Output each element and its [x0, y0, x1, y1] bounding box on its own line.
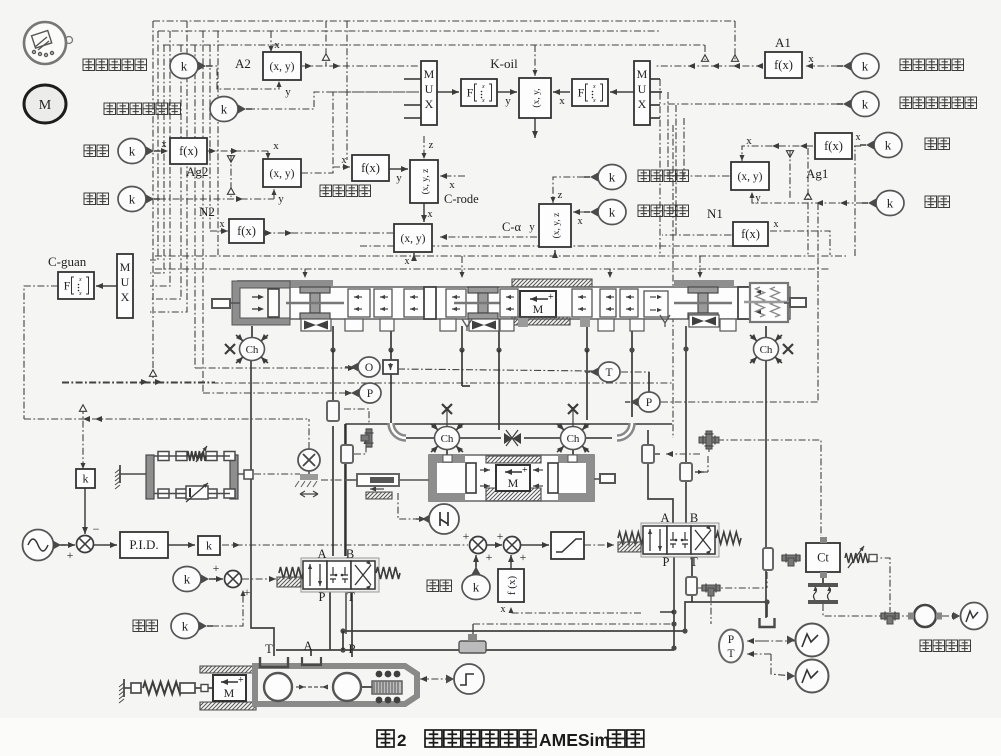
svg-text:k: k	[182, 619, 189, 634]
svg-text:B: B	[346, 547, 354, 561]
wire step to pump	[416, 678, 452, 680]
svg-text:+: +	[522, 465, 528, 476]
wire bundle x164	[150, 45, 164, 273]
wire accu dash	[473, 623, 674, 625]
wire x83 to kbox	[82, 407, 84, 469]
constant k bias1	[173, 567, 201, 592]
label pipe-len-r	[925, 196, 937, 208]
sensor P right	[638, 392, 660, 412]
wire valve2 T down	[691, 556, 693, 577]
thermal resistor	[845, 553, 869, 563]
wire rect mid2 stub	[354, 438, 366, 454]
wire xy3 out down	[413, 253, 415, 256]
wire kzero2 up	[475, 555, 477, 572]
wire k bend-count to C-alpha	[573, 211, 584, 213]
svg-text:M: M	[508, 476, 519, 490]
svg-text:T: T	[605, 367, 612, 379]
svg-text:F: F	[578, 86, 585, 100]
chamber rect b	[341, 445, 353, 463]
thermal capacitor	[808, 583, 838, 587]
wire k piston-dia to A2 y-in	[206, 66, 279, 89]
tee fitting b	[782, 554, 800, 567]
wire A2 branch up x326	[325, 21, 327, 66]
elbow right	[617, 423, 632, 438]
svg-text:Ch: Ch	[441, 433, 454, 445]
wire ch3 to cyl2	[446, 450, 448, 457]
wire pump P line	[276, 649, 674, 651]
svg-text:(x, y): (x, y)	[401, 233, 426, 245]
wire sum3 chain	[487, 544, 502, 546]
label piston-rod-dia	[83, 59, 95, 71]
fx block N2	[229, 219, 264, 243]
xy block center	[394, 224, 432, 252]
svg-text:(x, y, z: (x, y, z	[420, 169, 431, 195]
constant k pipe-len	[118, 187, 146, 212]
wire mux2 bundle x668	[667, 92, 669, 177]
svg-text:M: M	[224, 686, 235, 700]
label oil-density	[638, 170, 650, 182]
svg-text:O: O	[365, 362, 373, 374]
svg-text:z: z	[558, 189, 563, 201]
svg-text:f (x): f (x)	[506, 576, 518, 596]
svg-text:f(x): f(x)	[361, 161, 380, 175]
wire valve2 P down	[673, 556, 675, 648]
svg-text:A: A	[303, 639, 312, 653]
svg-text:(x, y): (x, y)	[270, 61, 295, 73]
wire drop x499	[498, 326, 500, 350]
svg-text:k: k	[609, 205, 616, 220]
svg-text:(x, y): (x, y)	[270, 168, 295, 180]
svg-text:T: T	[347, 590, 355, 604]
svg-text:f(x): f(x)	[774, 58, 793, 72]
svg-text:C-α: C-α	[502, 220, 522, 234]
svg-text:P: P	[646, 397, 652, 409]
position sensor X	[298, 449, 320, 471]
svg-text:+: +	[244, 585, 251, 599]
wire bundle x187	[150, 21, 187, 312]
wire k rodless-dia to A1	[806, 65, 838, 67]
svg-text:C-guan: C-guan	[48, 254, 87, 269]
label rod-side-deadvol	[104, 103, 116, 115]
wire y382 line	[62, 381, 215, 383]
svg-text:k: k	[129, 192, 136, 207]
chamber rect c	[642, 445, 654, 463]
svg-text:y: y	[529, 221, 535, 233]
wire mux2 bundle x660	[659, 79, 661, 255]
svg-text:f(x): f(x)	[824, 139, 843, 153]
wire N1 x-in	[770, 231, 830, 255]
wire y383 long	[62, 382, 673, 384]
wire C-guan out	[24, 286, 58, 419]
wire F2 to sq x-in	[553, 91, 570, 93]
svg-text:k: k	[206, 539, 212, 553]
check Ch4	[561, 427, 586, 450]
svg-text:P: P	[349, 642, 356, 656]
xyz block C-alpha	[539, 204, 571, 247]
svg-text:P: P	[728, 634, 734, 646]
wire sine to sum1	[54, 544, 75, 546]
svg-text:y: y	[396, 172, 402, 184]
F block 1	[461, 79, 497, 106]
wire drop x391	[390, 326, 392, 350]
wire P-right out	[661, 401, 818, 403]
svg-text:X: X	[121, 290, 130, 304]
wire fx2 up	[510, 555, 512, 569]
svg-text:Ag2: Ag2	[186, 164, 208, 179]
constant k rodless-dia	[851, 54, 879, 79]
wire rect2 stub	[654, 453, 660, 455]
svg-text:x: x	[449, 179, 455, 191]
label ambient-temp	[920, 640, 932, 652]
wire MUX2 to F2	[610, 91, 634, 93]
svg-text:T: T	[727, 648, 734, 660]
svg-text:AMESim: AMESim	[539, 730, 610, 750]
chamber rect a	[327, 401, 339, 421]
constant k piston-dia	[170, 54, 198, 79]
MUX2	[634, 61, 650, 125]
svg-text:+: +	[213, 561, 220, 575]
svg-text:Ch: Ch	[246, 344, 259, 356]
svg-text:z: z	[429, 139, 434, 151]
label rodless-dia	[900, 59, 912, 71]
svg-text:+: +	[497, 529, 504, 543]
svg-text:x: x	[481, 98, 485, 104]
MUX1	[421, 61, 437, 125]
icon M mass	[24, 85, 66, 123]
k gain box 2	[198, 536, 220, 555]
wire tee2 row	[698, 587, 764, 589]
wire k pipe-len r row	[752, 192, 863, 203]
wire pid to kbox	[168, 544, 195, 546]
svg-text:x: x	[578, 216, 583, 227]
wire rect d stub	[695, 471, 704, 473]
fx block Ag2	[170, 138, 207, 164]
svg-text:+: +	[486, 550, 493, 564]
svg-text:x: x	[405, 256, 410, 267]
source pulse 2	[796, 660, 829, 693]
svg-text:X: X	[425, 97, 434, 111]
F block 2	[572, 79, 608, 106]
svg-text:A1: A1	[775, 35, 791, 50]
wire C-rode out down	[423, 203, 425, 222]
svg-text:A2: A2	[235, 56, 251, 71]
label rodless-deadvol	[900, 97, 912, 109]
chamber rect f	[686, 577, 697, 595]
svg-text:f(x): f(x)	[237, 224, 256, 238]
label bend-count	[638, 205, 650, 217]
wire sum2 to valve1	[242, 578, 276, 580]
svg-text:Ag1: Ag1	[806, 166, 828, 181]
wire P line	[203, 392, 352, 394]
constant k oil-density	[598, 165, 626, 190]
wire k dead-vol to MUX1	[248, 92, 419, 109]
wire mux2 bundle x684	[683, 118, 685, 177]
svg-text:x: x	[808, 53, 814, 65]
svg-text:k: k	[181, 59, 188, 74]
svg-text:x: x	[78, 277, 82, 283]
wire F1 to sq y-in	[497, 91, 517, 93]
svg-text:Ct: Ct	[817, 551, 829, 565]
svg-text:x: x	[559, 95, 565, 107]
sensor P left	[359, 383, 381, 403]
orifice X mid	[504, 433, 521, 444]
wire MUX3 out	[96, 285, 117, 287]
wire C-alpha out down	[554, 250, 556, 256]
wire ch row	[403, 437, 434, 439]
svg-text:+: +	[463, 529, 470, 543]
svg-text:(x, y, z: (x, y, z	[551, 213, 562, 239]
wire bundle x170	[150, 31, 170, 286]
svg-text:k: k	[862, 59, 869, 74]
svg-text:M: M	[39, 98, 52, 113]
svg-text:x: x	[428, 209, 433, 220]
chamber rect e	[763, 548, 773, 570]
wire sq top input	[534, 45, 536, 76]
wire A2 x-input drop	[270, 31, 272, 52]
sum junction 1	[77, 536, 94, 553]
wire x735 up	[734, 21, 736, 60]
wire drop x462	[461, 326, 463, 350]
wire fx-visc out to C-rode	[389, 168, 408, 170]
svg-text:K-oil: K-oil	[490, 56, 518, 71]
mechanical load network	[119, 465, 121, 483]
svg-text:f(x): f(x)	[179, 144, 198, 158]
wire pump A	[310, 650, 312, 656]
wire x790 down	[789, 150, 791, 199]
k gain box feedback	[76, 469, 95, 488]
svg-text:k: k	[129, 144, 136, 159]
wire Ag1 feed from fx	[742, 146, 813, 161]
wire cross stub	[708, 445, 710, 454]
wire y631 line	[343, 630, 685, 632]
svg-text:Ch: Ch	[760, 344, 773, 356]
wire cyl param drops	[304, 269, 306, 278]
svg-text:+: +	[548, 292, 554, 303]
fx block N1	[733, 222, 768, 246]
wire C-rode z-in	[423, 136, 425, 159]
wire bundle x158	[150, 31, 158, 260]
wire x818 upper	[817, 203, 819, 402]
wire k to sum3 long	[222, 544, 468, 546]
svg-text:A: A	[660, 511, 669, 525]
wire thermal row	[823, 604, 908, 616]
wire Ag2 branch down x231	[230, 155, 232, 197]
fx block A1	[765, 52, 802, 78]
svg-text:+: +	[520, 550, 527, 564]
wire k2 to sum2	[214, 578, 223, 580]
wire top bus y31	[158, 30, 660, 32]
svg-text:T: T	[690, 555, 698, 569]
xy block A2	[263, 52, 301, 80]
wire rect mid stub	[344, 409, 369, 424]
wire N2 in	[210, 230, 228, 232]
sum junction 2	[225, 571, 242, 588]
wire pulse1 line	[790, 640, 795, 642]
wire sat to valve2	[584, 544, 614, 546]
wire k pipe-dia r	[854, 145, 861, 147]
svg-text:P: P	[319, 590, 326, 604]
wire bundle x195	[194, 45, 196, 368]
svg-text:x: x	[774, 219, 779, 230]
wire C-alpha y-out to xy3	[440, 236, 537, 238]
xy block Ag1	[731, 162, 769, 190]
cylinder under blocks	[345, 319, 363, 331]
wire drop x333	[332, 326, 334, 350]
wire k oil-density line	[553, 177, 584, 203]
svg-text:k: k	[862, 97, 869, 112]
wire rot-sensor dash	[398, 493, 420, 519]
svg-text:k: k	[221, 102, 228, 117]
label viscosity	[320, 185, 332, 197]
PID box	[120, 532, 168, 558]
xy block row2	[263, 159, 301, 187]
constant k pipe-len-r	[876, 191, 904, 216]
wire P2 tap	[648, 372, 650, 394]
wire MUX1 in stubs	[404, 78, 421, 80]
thermal node	[914, 605, 936, 627]
svg-text:x: x	[746, 135, 752, 147]
wire bundle x203	[202, 31, 204, 393]
wire top bus y21	[153, 20, 735, 22]
svg-text:M: M	[424, 67, 435, 81]
constant k rodless-deadvol	[851, 92, 879, 117]
constant k rod-deadvol	[210, 97, 238, 122]
wire ch1 drain	[251, 361, 274, 656]
constant k pipe-dia-r	[874, 133, 902, 158]
wire Ag1 out left	[688, 175, 729, 177]
wire X2 to damper	[321, 479, 354, 481]
svg-text:k: k	[83, 472, 89, 486]
svg-text:x: x	[342, 155, 347, 166]
wire rect3 down	[691, 595, 693, 602]
wire cyl param row2	[155, 268, 830, 270]
source sine	[23, 530, 54, 561]
constant k pipe-dia	[118, 139, 146, 164]
svg-text:T: T	[265, 642, 273, 656]
check Ch1	[251, 326, 253, 338]
svg-text:F: F	[64, 279, 71, 293]
svg-text:X: X	[638, 97, 647, 111]
wire valve1 ports	[329, 589, 331, 650]
svg-text:x: x	[273, 140, 279, 152]
servo valve 1	[301, 558, 379, 592]
label pipe-len	[84, 193, 96, 205]
wire A1 out bus	[656, 65, 763, 67]
wire k pipe-dia to Ag2	[159, 150, 168, 152]
wire T to P right	[621, 372, 649, 390]
enclosure frame	[346, 424, 672, 556]
svg-text:M: M	[637, 67, 648, 81]
wire bundle x218	[217, 31, 219, 255]
tee fitting c	[881, 612, 899, 625]
svg-text:U: U	[425, 82, 434, 96]
wire N2 out to xy3	[264, 232, 393, 234]
MUX3	[117, 254, 133, 318]
svg-text:y: y	[278, 193, 284, 205]
damper rod	[357, 474, 399, 486]
wire top bus y45	[163, 44, 705, 46]
sum junction 3	[470, 537, 487, 554]
tee fitting d	[702, 584, 720, 597]
wire fx-visc x-in	[333, 166, 350, 168]
svg-text:(x, y): (x, y)	[738, 171, 763, 183]
svg-text:x: x	[592, 98, 596, 104]
svg-text:M: M	[533, 302, 544, 316]
label pipe-dia-r	[925, 138, 937, 150]
tank right	[760, 618, 775, 627]
wire bundle x153	[152, 21, 154, 378]
svg-text:F: F	[467, 86, 474, 100]
constant k bias2	[171, 614, 199, 639]
svg-text:k: k	[887, 196, 894, 211]
wire bundle x347	[346, 21, 348, 160]
wire sum1 to pid	[94, 544, 117, 546]
wire drop x587	[586, 326, 588, 350]
svg-text:N2: N2	[199, 204, 215, 219]
xyz block C-rode	[410, 160, 438, 203]
constant k bias3	[462, 575, 490, 600]
tee fitting a	[361, 429, 374, 447]
source step	[454, 664, 484, 694]
wire sum4 to sat	[521, 544, 549, 546]
check Ch3	[435, 427, 460, 450]
wire ct right chain	[871, 558, 890, 612]
svg-text:x: x	[274, 39, 280, 51]
svg-text:x: x	[501, 604, 506, 615]
elbow left	[391, 423, 406, 438]
svg-text:(x, y,: (x, y,	[531, 88, 542, 107]
wire drop x632	[631, 326, 633, 350]
wire O line	[195, 367, 355, 369]
label zero-bias L	[133, 620, 145, 632]
wire y419 feedback	[24, 418, 309, 420]
check Ch2	[765, 326, 767, 338]
fx block pipe-dia-r	[815, 133, 852, 159]
sensor T	[598, 362, 620, 382]
svg-text:k: k	[609, 170, 616, 185]
fx block viscosity	[352, 155, 389, 181]
xy sq block	[519, 78, 551, 118]
svg-text:Ch: Ch	[567, 433, 580, 445]
label zero-bias R	[427, 580, 439, 592]
svg-text:x: x	[220, 219, 225, 230]
wire x705 up	[704, 45, 706, 60]
wire xy2 out up	[301, 92, 419, 173]
wire xy2 x-input	[267, 151, 269, 159]
svg-text:N1: N1	[707, 206, 723, 221]
wire C-rode x-in	[440, 175, 465, 177]
wire O to T	[398, 369, 595, 371]
svg-text:B: B	[690, 511, 698, 525]
svg-text:k: k	[184, 572, 191, 587]
wire ch4 to cyl2	[572, 450, 574, 457]
svg-text:P.I.D.: P.I.D.	[129, 537, 158, 552]
sensor O	[358, 357, 380, 377]
wire kbox to sum1	[84, 488, 86, 534]
wire MUX2 right stubs	[648, 78, 660, 80]
svg-text:2: 2	[397, 731, 406, 750]
Ct block	[806, 543, 840, 572]
svg-text:y: y	[755, 192, 761, 204]
source pulse right	[961, 603, 988, 630]
svg-text:f(x): f(x)	[741, 227, 760, 241]
wire N1 out left	[662, 234, 731, 236]
wire k pipe-len row	[159, 198, 274, 200]
caption figure 2	[377, 730, 394, 747]
wire bundle x181	[150, 45, 181, 299]
svg-text:x: x	[856, 132, 861, 143]
wire Ag2 out	[207, 150, 268, 152]
